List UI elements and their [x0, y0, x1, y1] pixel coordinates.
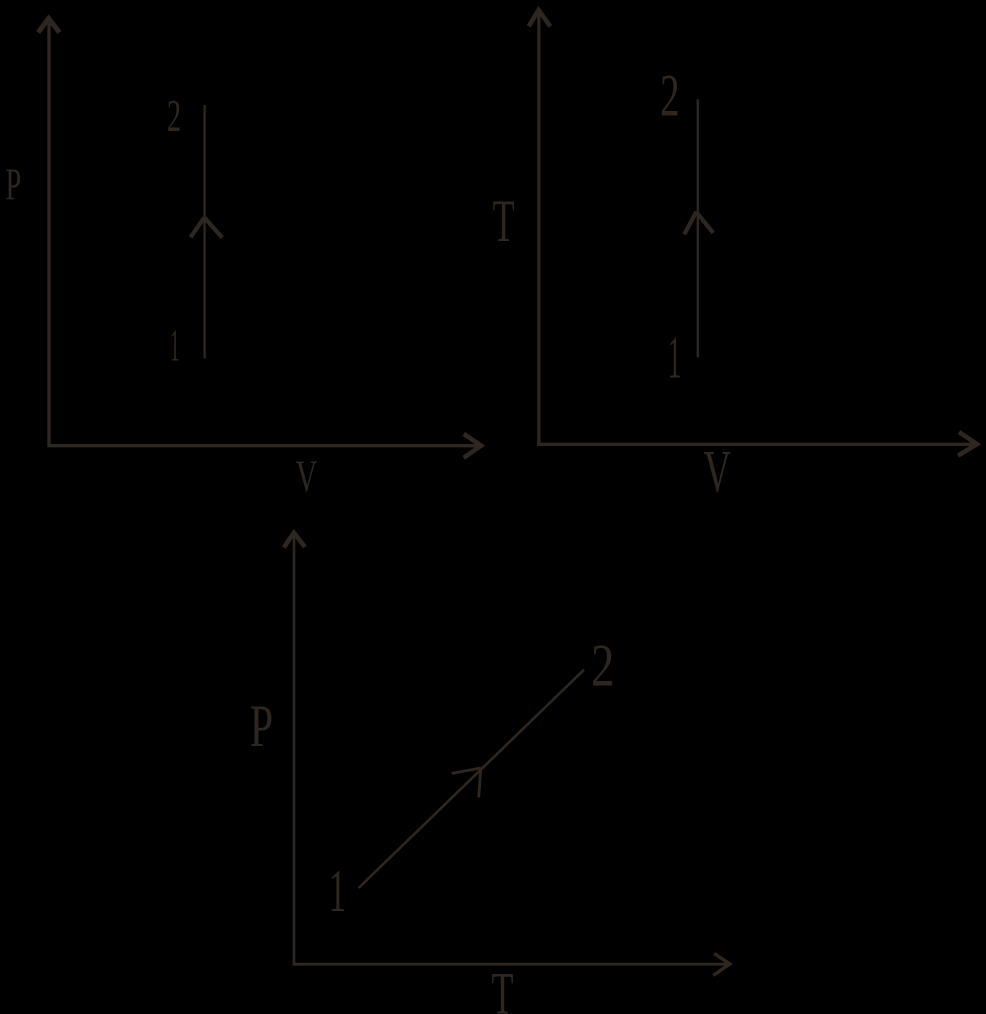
- svg-text:2: 2: [591, 632, 614, 699]
- P axis arrowhead: [38, 18, 59, 32]
- V axis arrowhead: [958, 432, 977, 456]
- V axis (horizontal) of diagram 2: [537, 443, 977, 446]
- svg-text:V: V: [704, 438, 731, 505]
- V axis arrowhead: [464, 434, 481, 458]
- svg-text:T: T: [493, 188, 515, 255]
- V axis (horizontal) of diagram 1: [48, 444, 482, 447]
- svg-text:T: T: [492, 960, 514, 1014]
- svg-text:P: P: [6, 160, 22, 210]
- T axis arrowhead: [713, 954, 730, 976]
- svg-text:2: 2: [167, 91, 181, 141]
- svg-text:V: V: [296, 453, 318, 503]
- T axis (horizontal) of diagram 3: [293, 963, 730, 966]
- P axis (vertical) of diagram 3: [293, 531, 296, 966]
- svg-text:1: 1: [328, 858, 346, 925]
- svg-text:1: 1: [668, 325, 682, 392]
- T axis arrowhead: [529, 10, 551, 26]
- direction arrowhead on process line diagram 1: [191, 217, 205, 237]
- direction arrowhead on process line diagram 2: [684, 212, 696, 235]
- direction arrowhead on process line diagram 3: [452, 768, 481, 773]
- svg-text:P: P: [250, 694, 273, 760]
- svg-text:1: 1: [170, 320, 180, 371]
- process line 1 to 2 (isochoric) diagram 2: [697, 99, 699, 357]
- svg-text:2: 2: [660, 62, 679, 128]
- P axis (vertical) of diagram 1: [47, 16, 50, 447]
- T axis (vertical) of diagram 2: [537, 10, 540, 446]
- P axis arrowhead: [284, 533, 305, 548]
- process line 1 to 2 (isochoric) diagram 1: [203, 105, 205, 359]
- process line 1 to 2 (linear P-T) diagram 3: [359, 670, 584, 888]
